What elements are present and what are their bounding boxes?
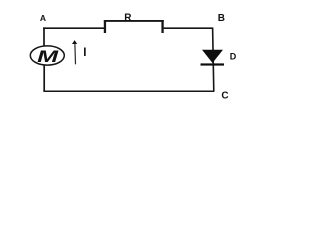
svg-text:R: R (124, 13, 132, 24)
svg-text:C: C (221, 91, 228, 102)
svg-text:B: B (218, 13, 225, 24)
svg-text:I: I (83, 47, 86, 59)
svg-text:A: A (40, 13, 46, 23)
svg-text:M: M (37, 47, 59, 66)
svg-text:D: D (230, 51, 237, 61)
